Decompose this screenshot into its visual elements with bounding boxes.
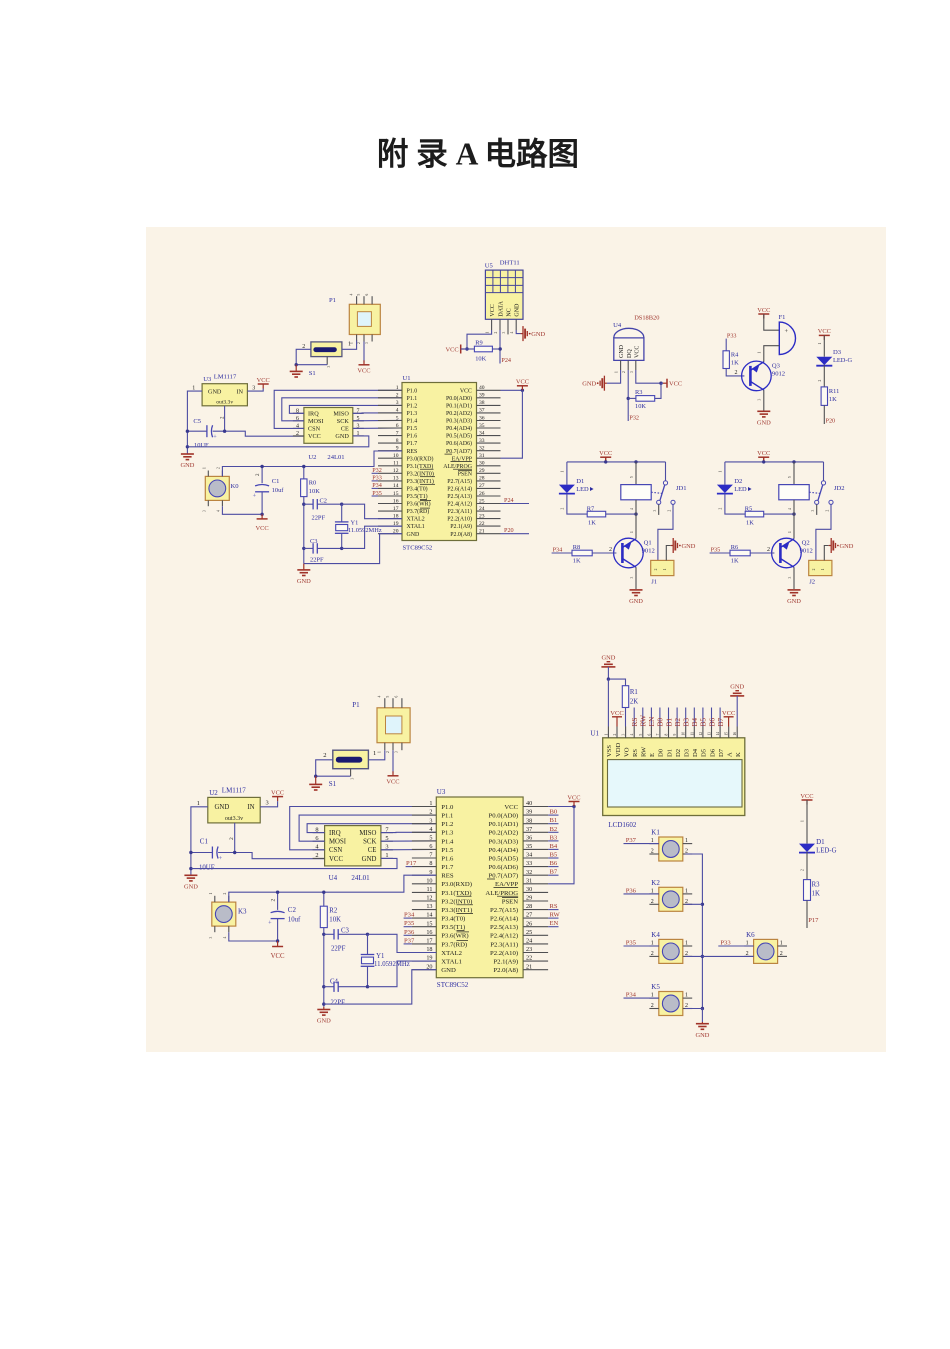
wire K2 pin2 to bus bbox=[685, 903, 702, 905]
ground below Q3 bbox=[757, 410, 770, 412]
svg-text:R3: R3 bbox=[812, 882, 821, 889]
svg-text:6: 6 bbox=[395, 696, 399, 698]
svg-text:P2.2(A10): P2.2(A10) bbox=[447, 516, 472, 523]
wire C5 left bbox=[187, 430, 207, 432]
svg-text:3: 3 bbox=[327, 366, 331, 368]
svg-text:2: 2 bbox=[651, 899, 654, 905]
svg-text:P34: P34 bbox=[626, 992, 637, 999]
svg-text:29: 29 bbox=[479, 468, 485, 474]
svg-text:LED-G: LED-G bbox=[816, 848, 836, 855]
wire DHT11 DATA pin to P24 bbox=[499, 330, 501, 364]
wire U2b pin2 down bbox=[234, 823, 236, 853]
svg-text:P0.1(AD1): P0.1(AD1) bbox=[446, 403, 472, 410]
svg-text:VCC: VCC bbox=[329, 856, 343, 863]
IC U2 24L01 bbox=[304, 408, 353, 444]
svg-text:P1.6: P1.6 bbox=[407, 434, 418, 440]
U3 right pin stubs and numbers bbox=[523, 806, 548, 808]
svg-text:34: 34 bbox=[479, 430, 485, 436]
svg-text:1: 1 bbox=[197, 800, 200, 807]
svg-text:1: 1 bbox=[788, 531, 792, 533]
svg-text:22PF: 22PF bbox=[331, 946, 346, 953]
svg-text:CSN: CSN bbox=[308, 426, 321, 433]
svg-text:1: 1 bbox=[801, 820, 805, 822]
wire J2 pin2 to ground bbox=[824, 546, 828, 561]
wire C1b left bbox=[191, 852, 213, 854]
svg-text:10UF: 10UF bbox=[194, 442, 209, 449]
svg-text:P0.2(AD2): P0.2(AD2) bbox=[446, 410, 472, 417]
svg-text:32: 32 bbox=[479, 446, 485, 452]
svg-text:VCC: VCC bbox=[610, 710, 624, 717]
svg-text:VCC: VCC bbox=[818, 328, 831, 335]
svg-text:31: 31 bbox=[526, 877, 532, 884]
svg-text:5: 5 bbox=[429, 835, 432, 842]
transistor Q2 9012 bbox=[772, 538, 802, 568]
wire coil to node bbox=[793, 500, 795, 514]
svg-text:C1: C1 bbox=[200, 838, 209, 846]
svg-text:2: 2 bbox=[323, 752, 326, 759]
svg-text:P1.0: P1.0 bbox=[407, 388, 418, 394]
wire U4b IRQ loop to U3 P1.2 bbox=[307, 824, 436, 833]
LED D1 bbox=[559, 485, 575, 493]
svg-text:GND: GND bbox=[215, 804, 230, 811]
svg-text:GND: GND bbox=[208, 389, 222, 396]
svg-text:GND: GND bbox=[682, 543, 696, 550]
svg-text:9012: 9012 bbox=[772, 371, 785, 378]
svg-text:Y1: Y1 bbox=[376, 953, 384, 960]
svg-text:10UF: 10UF bbox=[199, 865, 215, 872]
wire S1 pin2 to GND bbox=[296, 349, 311, 364]
LCD pin stubs and numbers bbox=[607, 727, 609, 738]
wire rail to LED D1 bbox=[566, 462, 568, 485]
resistor R5 1K bbox=[745, 511, 764, 517]
svg-text:PSEN: PSEN bbox=[502, 898, 519, 905]
svg-text:XTAL1: XTAL1 bbox=[441, 959, 462, 966]
svg-text:3: 3 bbox=[502, 332, 506, 334]
svg-text:B5: B5 bbox=[550, 852, 558, 859]
svg-text:D5: D5 bbox=[701, 748, 708, 757]
svg-text:B2: B2 bbox=[550, 826, 558, 833]
wire relay VCC rail bbox=[567, 461, 666, 463]
svg-text:16: 16 bbox=[733, 732, 737, 736]
svg-text:22PF: 22PF bbox=[310, 557, 324, 564]
svg-text:P17: P17 bbox=[808, 917, 819, 924]
svg-text:13: 13 bbox=[708, 732, 712, 736]
svg-text:VCC: VCC bbox=[271, 789, 284, 796]
svg-text:GND: GND bbox=[730, 684, 744, 691]
svg-text:1: 1 bbox=[615, 371, 619, 373]
svg-text:J2: J2 bbox=[809, 579, 815, 586]
wire RES rail from K3 to U3 pin9 bbox=[229, 875, 436, 902]
svg-text:IN: IN bbox=[236, 389, 243, 396]
svg-text:P3.6(WR): P3.6(WR) bbox=[441, 933, 468, 940]
svg-text:LM1117: LM1117 bbox=[222, 786, 246, 794]
resistor R9 10K bbox=[474, 346, 492, 352]
svg-text:MISO: MISO bbox=[359, 830, 376, 837]
svg-text:3: 3 bbox=[758, 399, 762, 401]
net labels B0-B7 on U3 pins 39-32 bbox=[548, 814, 558, 816]
wire C1 top to rail bbox=[261, 467, 263, 484]
svg-text:P2.6(A14): P2.6(A14) bbox=[490, 916, 518, 923]
svg-text:P34: P34 bbox=[553, 546, 563, 553]
svg-text:P35: P35 bbox=[711, 546, 721, 553]
svg-text:P34: P34 bbox=[372, 482, 382, 489]
svg-text:F1: F1 bbox=[779, 314, 786, 321]
svg-text:D7: D7 bbox=[718, 748, 725, 757]
svg-text:16: 16 bbox=[393, 498, 399, 504]
svg-text:P1.1: P1.1 bbox=[441, 813, 453, 820]
svg-text:37: 37 bbox=[479, 408, 485, 414]
svg-text:VCC: VCC bbox=[800, 793, 813, 800]
svg-text:10K: 10K bbox=[475, 356, 486, 363]
wire coil to node bbox=[635, 500, 637, 514]
svg-text:P24: P24 bbox=[504, 497, 514, 504]
wire GND node to LCD VSS pin bbox=[607, 679, 609, 726]
svg-text:K: K bbox=[735, 752, 742, 757]
wire C1b right to U4b VCC pin bbox=[218, 853, 325, 859]
svg-text:RES: RES bbox=[441, 873, 454, 880]
wire VCC to D1 bbox=[806, 800, 808, 844]
wire rail to LED D2 bbox=[724, 462, 726, 485]
svg-text:R9: R9 bbox=[475, 340, 482, 347]
wire coil node to Q1 collector bbox=[635, 514, 637, 539]
ground below Q2 bbox=[788, 589, 801, 591]
wire U2 IRQ loop to U1 P1.2 bbox=[289, 405, 402, 413]
svg-text:5: 5 bbox=[630, 476, 634, 478]
svg-text:2: 2 bbox=[357, 342, 361, 344]
LED D2 bbox=[717, 485, 733, 493]
wire R11 to P20 bbox=[823, 405, 825, 424]
push button K1 bbox=[659, 837, 683, 861]
svg-text:P0.6(AD6): P0.6(AD6) bbox=[446, 440, 472, 447]
svg-text:LED: LED bbox=[576, 486, 589, 493]
svg-text:3: 3 bbox=[203, 510, 207, 512]
wire button common ground bus bbox=[685, 853, 702, 855]
U4b pin stubs bbox=[313, 832, 325, 834]
resistor R3 1K (bottom) bbox=[804, 880, 811, 901]
contact 3 stub bbox=[816, 505, 818, 515]
svg-text:29: 29 bbox=[526, 895, 532, 902]
svg-text:P3.7(RD): P3.7(RD) bbox=[407, 508, 430, 515]
wire R8 to Q1 base bbox=[592, 552, 616, 554]
VCC tap below P1 (bottom) bbox=[392, 750, 394, 773]
wire U2 GND return bbox=[187, 436, 368, 447]
svg-text:11: 11 bbox=[393, 461, 399, 467]
svg-text:P1.3: P1.3 bbox=[407, 411, 418, 417]
svg-text:1: 1 bbox=[818, 343, 822, 345]
svg-text:5: 5 bbox=[788, 476, 792, 478]
regulator U2 LM1117 (bottom) bbox=[208, 797, 260, 823]
svg-text:3: 3 bbox=[811, 510, 815, 512]
wire D2 to R5 bbox=[725, 494, 745, 514]
svg-text:1: 1 bbox=[203, 467, 207, 469]
svg-text:3: 3 bbox=[396, 400, 399, 406]
svg-text:3: 3 bbox=[209, 937, 213, 939]
svg-text:P3.4(T0): P3.4(T0) bbox=[407, 486, 428, 493]
svg-text:1: 1 bbox=[663, 568, 667, 570]
svg-text:VCC: VCC bbox=[271, 953, 285, 960]
svg-text:4: 4 bbox=[396, 408, 399, 414]
svg-text:P3.0(RXD): P3.0(RXD) bbox=[441, 881, 472, 888]
svg-text:D3: D3 bbox=[833, 349, 842, 356]
svg-text:CE: CE bbox=[368, 847, 377, 854]
svg-text:R0: R0 bbox=[309, 480, 316, 487]
U1 left pin stubs and numbers bbox=[378, 389, 402, 391]
wire DHT11 VCC pin to R9 node bbox=[467, 330, 492, 349]
svg-text:+: + bbox=[268, 920, 272, 927]
svg-text:3: 3 bbox=[630, 371, 634, 373]
svg-text:R3: R3 bbox=[635, 389, 642, 396]
svg-text:P0.3(AD3): P0.3(AD3) bbox=[489, 838, 519, 845]
svg-text:6: 6 bbox=[647, 734, 651, 736]
svg-text:1K: 1K bbox=[731, 557, 739, 564]
LCD rotated net labels bbox=[633, 708, 635, 727]
switch S1 (bottom) bbox=[333, 750, 369, 769]
svg-text:1K: 1K bbox=[746, 520, 754, 527]
svg-text:P3.4(T0): P3.4(T0) bbox=[441, 916, 465, 923]
svg-text:U1: U1 bbox=[403, 375, 411, 382]
svg-text:K1: K1 bbox=[651, 829, 660, 837]
svg-text:VCC: VCC bbox=[460, 388, 472, 394]
svg-text:P0.6(AD6): P0.6(AD6) bbox=[489, 864, 519, 871]
svg-text:IN: IN bbox=[247, 804, 254, 811]
wire K4 pin2 to bus to K6 pin2 bbox=[685, 955, 753, 957]
svg-text:P3.6(WR): P3.6(WR) bbox=[407, 501, 431, 508]
svg-text:P33: P33 bbox=[372, 475, 382, 482]
wire U4b MOSI loop to U3 P1.1 bbox=[299, 815, 436, 841]
svg-text:P1.7: P1.7 bbox=[441, 864, 454, 871]
svg-text:P36: P36 bbox=[626, 887, 637, 894]
svg-text:B6: B6 bbox=[550, 860, 558, 867]
svg-text:Q1: Q1 bbox=[644, 540, 652, 547]
svg-text:24: 24 bbox=[479, 506, 485, 512]
svg-text:14: 14 bbox=[393, 483, 399, 489]
IC U4 24L01 (bottom) bbox=[325, 826, 381, 866]
svg-text:out3.3v: out3.3v bbox=[216, 400, 233, 406]
svg-text:1: 1 bbox=[429, 800, 432, 807]
LED D1 LED-G (bottom) bbox=[799, 844, 815, 852]
push button K5 bbox=[659, 992, 683, 1016]
svg-text:ALE/PROG: ALE/PROG bbox=[485, 890, 518, 897]
svg-text:SCK: SCK bbox=[363, 839, 376, 846]
svg-text:GND: GND bbox=[180, 462, 194, 469]
net label P36 wire to K2 bbox=[624, 893, 659, 895]
svg-text:P2.1(A9): P2.1(A9) bbox=[450, 523, 472, 530]
svg-text:3: 3 bbox=[429, 817, 432, 824]
svg-text:P0.7(AD7): P0.7(AD7) bbox=[489, 873, 519, 880]
svg-text:2K: 2K bbox=[630, 699, 638, 706]
net label P34 wire to K5 bbox=[624, 997, 659, 999]
wire U2b pin1 to GND rail bbox=[191, 807, 208, 876]
wire U1 pin40 VCC bbox=[501, 389, 523, 391]
wire DS18B20 GND pin to ground bbox=[607, 370, 621, 383]
svg-text:4: 4 bbox=[223, 937, 227, 939]
schematic background panel bbox=[146, 227, 886, 1052]
wire U2 MOSI loop to U1 P1.1 bbox=[282, 398, 402, 421]
svg-text:U2: U2 bbox=[308, 454, 316, 461]
connector P1 (top) bbox=[349, 304, 380, 334]
svg-text:1: 1 bbox=[718, 471, 722, 473]
svg-text:RES: RES bbox=[407, 449, 418, 455]
svg-text:NC: NC bbox=[506, 308, 512, 316]
svg-text:P0.0(AD0): P0.0(AD0) bbox=[489, 813, 519, 820]
svg-text:RS: RS bbox=[632, 749, 639, 757]
crystal Y1 11.0592MHz (bottom) bbox=[367, 934, 369, 954]
svg-text:2: 2 bbox=[560, 508, 564, 510]
svg-text:22PF: 22PF bbox=[312, 515, 326, 522]
svg-text:VCC: VCC bbox=[357, 367, 370, 374]
svg-text:10uf: 10uf bbox=[272, 487, 285, 494]
svg-text:P2.1(A9): P2.1(A9) bbox=[493, 959, 518, 966]
wire contact 2 to J2 bbox=[816, 505, 831, 561]
svg-text:5: 5 bbox=[639, 734, 643, 736]
svg-text:K0: K0 bbox=[231, 483, 240, 490]
net label P35 wire to K4 bbox=[624, 945, 659, 947]
svg-text:P1.0: P1.0 bbox=[441, 804, 454, 811]
wire VCC to U3 pin31 EA/VPP bbox=[548, 807, 574, 884]
svg-text:12: 12 bbox=[699, 732, 703, 736]
svg-text:10: 10 bbox=[426, 877, 432, 884]
svg-text:R1: R1 bbox=[630, 689, 638, 696]
svg-text:EA/VPP: EA/VPP bbox=[495, 881, 518, 888]
svg-text:28: 28 bbox=[479, 476, 485, 482]
net label P24 on U1 pin25 bbox=[501, 503, 530, 505]
svg-text:P35: P35 bbox=[626, 939, 637, 946]
svg-text:8: 8 bbox=[429, 860, 432, 867]
svg-text:B7: B7 bbox=[550, 869, 558, 876]
svg-text:LM1117: LM1117 bbox=[214, 374, 237, 381]
svg-text:U3: U3 bbox=[203, 376, 212, 383]
wire C4b to XTAL1 bbox=[338, 986, 367, 988]
svg-text:J1: J1 bbox=[651, 579, 657, 586]
IC U1 STC89C52 (top MCU) bbox=[402, 383, 477, 541]
svg-text:VCC: VCC bbox=[516, 379, 529, 386]
svg-text:3: 3 bbox=[395, 751, 399, 753]
svg-text:2: 2 bbox=[651, 1003, 654, 1009]
svg-text:1: 1 bbox=[685, 889, 688, 895]
svg-text:2: 2 bbox=[494, 332, 498, 334]
svg-text:RS: RS bbox=[550, 903, 558, 910]
svg-text:10uf: 10uf bbox=[288, 917, 301, 924]
svg-text:7: 7 bbox=[429, 852, 432, 859]
svg-text:K3: K3 bbox=[238, 908, 247, 916]
svg-text:MOSI: MOSI bbox=[308, 418, 323, 425]
svg-text:P2.2(A10): P2.2(A10) bbox=[490, 950, 518, 957]
resistor R1 2K bbox=[608, 679, 625, 686]
wire R4 to Q3 base bbox=[726, 369, 744, 376]
wire C2b top to rail bbox=[277, 892, 279, 910]
resistor R8 1K (base) bbox=[572, 550, 592, 556]
svg-text:2: 2 bbox=[667, 510, 671, 512]
svg-text:2: 2 bbox=[622, 371, 626, 373]
svg-text:STC89C52: STC89C52 bbox=[403, 545, 433, 552]
svg-text:25: 25 bbox=[526, 929, 532, 936]
svg-text:35: 35 bbox=[526, 843, 532, 850]
svg-text:2: 2 bbox=[386, 751, 390, 753]
svg-text:3: 3 bbox=[252, 385, 255, 391]
svg-text:7: 7 bbox=[396, 430, 399, 436]
svg-text:6: 6 bbox=[365, 294, 369, 296]
svg-text:P35: P35 bbox=[404, 920, 415, 927]
svg-text:GND: GND bbox=[695, 1032, 709, 1039]
wire U2b pin3 to VCC bbox=[260, 801, 277, 807]
svg-text:2: 2 bbox=[654, 568, 658, 570]
svg-text:P2.3(A11): P2.3(A11) bbox=[448, 508, 473, 515]
wire VCC node down to R3 bbox=[655, 383, 661, 398]
wire U4b CSN loop to U3 P1.0 bbox=[290, 807, 437, 850]
svg-text:P2.7(A15): P2.7(A15) bbox=[490, 907, 518, 914]
wire U2 CSN loop to U1 P1.0 bbox=[274, 390, 402, 428]
svg-text:附 录 A 电路图: 附 录 A 电路图 bbox=[377, 137, 579, 172]
svg-text:XTAL1: XTAL1 bbox=[407, 524, 425, 530]
svg-text:P17: P17 bbox=[406, 860, 417, 867]
svg-text:GND: GND bbox=[441, 967, 456, 974]
svg-text:P1.6: P1.6 bbox=[441, 855, 454, 862]
svg-text:LED-G: LED-G bbox=[833, 357, 853, 364]
P1 top pin stubs bbox=[356, 296, 358, 304]
push button K3 bbox=[212, 902, 236, 926]
svg-text:DHT11: DHT11 bbox=[500, 260, 520, 267]
svg-text:24L01: 24L01 bbox=[351, 874, 370, 882]
svg-text:GND: GND bbox=[601, 655, 615, 662]
svg-text:D2: D2 bbox=[675, 749, 682, 757]
svg-text:R8: R8 bbox=[573, 544, 580, 551]
svg-text:LCD1602: LCD1602 bbox=[608, 821, 637, 829]
svg-text:22: 22 bbox=[479, 521, 485, 527]
wire relay VCC rail bbox=[725, 461, 824, 463]
svg-text:C2: C2 bbox=[288, 906, 297, 914]
svg-text:P2.3(A11): P2.3(A11) bbox=[490, 941, 518, 948]
ground below C5 bbox=[181, 453, 194, 455]
svg-text:U4: U4 bbox=[613, 322, 622, 329]
svg-text:GND: GND bbox=[184, 884, 198, 891]
svg-text:38: 38 bbox=[479, 400, 485, 406]
wire R5 to coil node bbox=[764, 513, 794, 515]
svg-text:2: 2 bbox=[613, 734, 617, 736]
VCC tap below P1 (top) bbox=[363, 342, 365, 363]
resistor R7 1K bbox=[587, 511, 606, 517]
svg-text:3: 3 bbox=[365, 342, 369, 344]
wire VCC to F1 plus pin bbox=[764, 314, 780, 330]
svg-text:22PF: 22PF bbox=[331, 1000, 346, 1007]
wire U4b CE to U3 P1.5 bbox=[381, 849, 436, 851]
wire S1b pin2 to GND bbox=[316, 760, 333, 776]
U3 left pin stubs and numbers bbox=[412, 806, 436, 808]
svg-text:LED: LED bbox=[734, 486, 747, 493]
svg-text:GND: GND bbox=[787, 598, 801, 605]
push button K6 bbox=[754, 939, 778, 963]
svg-text:11: 11 bbox=[427, 886, 433, 893]
ground below S1 (top) bbox=[295, 365, 297, 372]
svg-text:15: 15 bbox=[426, 920, 432, 927]
K4 stubs bbox=[649, 945, 658, 947]
svg-text:2: 2 bbox=[801, 869, 805, 871]
svg-text:21: 21 bbox=[479, 529, 485, 535]
svg-text:4: 4 bbox=[350, 294, 354, 296]
wire GND rail to U3 pin20 bbox=[324, 970, 437, 1004]
svg-text:2: 2 bbox=[818, 380, 822, 382]
svg-text:21: 21 bbox=[526, 963, 532, 970]
svg-text:P0.1(AD1): P0.1(AD1) bbox=[489, 821, 519, 828]
svg-text:DS18B20: DS18B20 bbox=[634, 315, 659, 322]
net label P20 on U1 pin21 bbox=[501, 533, 530, 535]
svg-text:R4: R4 bbox=[731, 352, 739, 359]
svg-text:+: + bbox=[253, 493, 257, 500]
svg-text:16: 16 bbox=[426, 929, 432, 936]
svg-text:1: 1 bbox=[560, 471, 564, 473]
svg-text:15: 15 bbox=[725, 732, 729, 736]
svg-text:PSEN: PSEN bbox=[458, 471, 473, 477]
svg-text:VCC: VCC bbox=[490, 304, 496, 316]
